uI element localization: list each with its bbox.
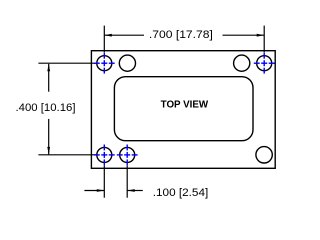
dimension .100 extension line right <box>126 165 128 197</box>
dimension .700 extension line left <box>103 26 105 53</box>
dimension .400 extension line top <box>38 62 96 64</box>
dimension .400 extension line bottom <box>38 154 96 156</box>
hole top-right (pin, with center mark) <box>257 56 272 71</box>
svg-text:.400 [10.16]: .400 [10.16] <box>16 102 76 114</box>
outer body rectangle <box>91 51 275 169</box>
center mark hole bottom-left <box>94 145 115 166</box>
dimension .100 line left segment <box>84 190 104 192</box>
dimension .700 line right segment <box>223 34 265 36</box>
dimension .700 arrow left <box>104 34 112 37</box>
dimension .400 line top segment <box>48 64 50 92</box>
center mark hole bottom-left-2 <box>117 145 138 166</box>
inner rounded body outline <box>114 77 253 141</box>
dimension .400 arrow down <box>47 147 50 155</box>
svg-text:.100 [2.54]: .100 [2.54] <box>153 187 209 199</box>
dimension .100 arrow left (points right at left ext line) <box>97 189 105 192</box>
dimension .100 extension line left <box>103 165 105 197</box>
hole top-right-2 (plain) <box>234 55 250 71</box>
center mark hole top-right <box>254 53 275 74</box>
center mark hole top-left <box>94 53 115 74</box>
dimension .400 arrow up <box>47 64 50 72</box>
svg-text:TOP VIEW: TOP VIEW <box>161 100 209 111</box>
hole bottom-right (plain) <box>256 147 272 163</box>
dimension .400 line bottom segment <box>48 119 50 154</box>
hole top-left (pin, with center mark) <box>97 56 112 71</box>
svg-text:.700 [17.78]: .700 [17.78] <box>149 29 213 41</box>
dimension .700 line left segment <box>104 34 144 36</box>
dimension .100 arrow right (points left at right ext line) <box>127 189 135 192</box>
hole bottom-left (pin, with center mark) <box>97 147 112 162</box>
hole bottom-left-2 (pin, with center mark) <box>120 147 135 162</box>
dimension .700 arrow right <box>257 34 265 37</box>
dimension .700 extension line right <box>263 26 265 53</box>
hole top-left-2 (plain) <box>119 55 135 71</box>
dimension .100 line right segment <box>127 190 143 192</box>
